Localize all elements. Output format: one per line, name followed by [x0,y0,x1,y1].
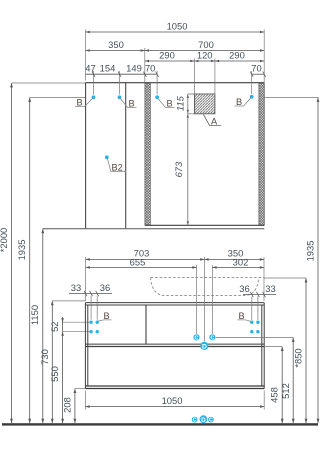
point D circle (drain) [200,342,208,350]
svg-text:B: B [129,99,135,109]
svg-text:1935: 1935 [16,240,27,261]
vanity right edge [262,303,264,389]
label B (hook 1) [75,98,93,107]
outlet box A (hatched) [195,94,215,114]
dim 655 (to point C1) [196,265,198,334]
svg-text:120: 120 [197,50,213,61]
svg-text:1935: 1935 [305,241,316,262]
dim 512 (C height) [216,337,293,339]
label B (hook 2) [120,98,137,108]
dim *850 (basin rim height) [264,277,306,279]
dim 208 (plinth) [75,388,85,390]
drawer divider double line [85,343,264,345]
dim 70 left of mirror [156,71,158,95]
upper band vertical divider [145,305,147,344]
svg-text:C: C [209,417,213,423]
point C1 circle (water) [193,334,199,340]
svg-text:C: C [210,336,214,342]
svg-text:512: 512 [280,383,291,399]
svg-text:700: 700 [198,39,214,50]
svg-text:290: 290 [159,50,175,61]
dim 70 right of mirror [251,71,253,94]
svg-text:1050: 1050 [162,395,183,406]
svg-text:673: 673 [173,161,184,177]
dim 47 / 154 / 149 chain [94,71,120,95]
svg-text:D: D [201,417,206,424]
dim 703 [86,257,205,341]
floor line [2,423,318,425]
mounting point B dots top row [92,95,96,99]
svg-text:350: 350 [108,39,124,50]
left wall cabinet B2 box [85,83,87,228]
svg-text:B: B [77,98,83,108]
dim 290 / 120 / 290 [195,59,215,94]
vanity left edge [85,303,87,389]
svg-text:290: 290 [229,50,245,61]
svg-text:*2000: *2000 [0,228,9,253]
dim 550 [62,332,64,424]
dim 673 (mirror height) [187,114,189,226]
vanity mounting dots B left (2x2) [89,321,92,324]
svg-text:36: 36 [100,282,110,293]
dim 1935 right [265,97,318,99]
dim 350 top [144,48,146,82]
label B2 in left cabinet [105,155,109,159]
svg-text:302: 302 [233,257,249,268]
svg-text:B: B [236,97,242,107]
mirror cabinet right side panel (hatched) [259,83,264,225]
svg-text:47: 47 [85,63,95,74]
svg-text:36: 36 [239,283,249,294]
svg-text:52: 52 [49,321,60,331]
dim 36/33 right (vanity hooks) [252,297,258,321]
dim 458 (D height) [264,346,282,348]
label B (hook 4) [235,98,252,107]
svg-text:B: B [104,311,110,321]
svg-text:70: 70 [251,63,261,74]
label B left vanity [98,320,112,321]
svg-text:B2: B2 [112,162,123,172]
dim 700 top [145,50,264,52]
dim 33/36 left (vanity hooks) [91,296,97,320]
dim 52 (between lower hook rows) [63,322,91,332]
svg-text:1150: 1150 [29,305,40,325]
washbasin dashed outline [151,277,264,279]
bottom supply point D [200,415,208,423]
label B right vanity [238,320,252,322]
svg-text:1050: 1050 [167,21,188,32]
dim 302 (to point C2) [211,265,213,334]
dim 730 [52,300,85,302]
svg-text:B: B [167,99,173,109]
vanity top double line [85,303,264,305]
svg-text:550: 550 [49,366,60,382]
dim 1050 top [86,30,265,84]
svg-text:115: 115 [175,95,186,111]
dim 115 (outlet) vertical [187,94,189,225]
mirror cabinet bottom double line [145,224,264,226]
svg-text:C: C [195,336,199,342]
wall cabinet top edge line [85,82,264,84]
vanity bottom double line [85,386,264,389]
svg-text:C: C [193,417,197,423]
dim 350 (right, to point D) [263,257,265,301]
svg-text:730: 730 [39,349,50,365]
svg-text:149: 149 [126,63,142,74]
svg-text:208: 208 [61,397,72,413]
bottom supply point C [208,417,214,423]
svg-text:B: B [239,311,245,321]
label A with leader [204,115,222,126]
point C2 circle (water) [209,334,215,340]
label B (hook 3) [158,98,175,108]
svg-text:655: 655 [130,257,146,268]
svg-text:458: 458 [268,387,279,403]
svg-text:*850: *850 [293,348,304,367]
svg-text:70: 70 [145,63,155,74]
bottom supply point C [192,417,198,423]
dim *2000 [12,82,86,84]
svg-text:33: 33 [265,283,275,294]
svg-text:33: 33 [71,282,81,293]
vanity mounting dots B right (2x2) [250,321,253,324]
svg-text:A: A [211,117,218,127]
dim 1050 bottom [85,391,264,410]
mirror cabinet left side panel (hatched) [145,83,150,225]
svg-text:D: D [202,344,207,351]
dim 1935 left [30,97,85,99]
dim 1150 [42,229,44,423]
bottom shelf line of upper cabinets + 1150 leader [43,228,264,230]
svg-text:154: 154 [100,63,116,74]
